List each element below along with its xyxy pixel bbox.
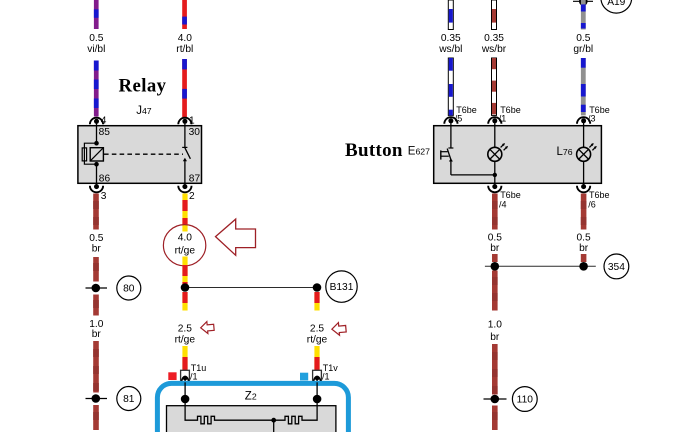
wire 0.5 br below T6be/6: [581, 194, 587, 230]
svg-text:br: br: [490, 243, 500, 254]
svg-text:ws/bl: ws/bl: [438, 44, 462, 55]
junction dot br left: [491, 262, 500, 271]
svg-text:B131: B131: [330, 282, 354, 293]
connector T6be/5 (cap+dot): [444, 117, 457, 126]
junction dot Z2 right: [313, 395, 322, 404]
connector pin 3 (cup+dot): [90, 183, 103, 192]
svg-text:rt/ge: rt/ge: [175, 335, 196, 346]
svg-text:85: 85: [99, 127, 111, 138]
svg-text:gr/bl: gr/bl: [573, 44, 593, 55]
svg-text:Button: Button: [345, 140, 403, 161]
svg-text:vi/bl: vi/bl: [87, 44, 105, 55]
node B131 circle: [326, 271, 357, 302]
node 80 circle: [117, 276, 141, 300]
heating element resistor path: [185, 406, 317, 424]
svg-text:30: 30: [189, 127, 201, 138]
svg-text:br: br: [92, 329, 102, 340]
button box E627: [434, 126, 602, 184]
svg-text:4.0: 4.0: [178, 33, 192, 44]
junction tick top gr/bl: [573, 0, 593, 2]
wire 2.5 rt/ge right lower: [314, 346, 319, 370]
wire 2.5 rt/ge right upper: [314, 292, 319, 311]
red marker square: [168, 372, 176, 380]
wire T1v to element: [316, 382, 318, 405]
big highlight arrow: [216, 219, 256, 255]
junction dot node 110: [491, 395, 500, 404]
connector pin 2 (cup+dot): [178, 183, 191, 192]
small arrow mid: [200, 321, 214, 334]
svg-text:rt/ge: rt/ge: [175, 246, 196, 257]
connector pin 1 (cap+dot): [178, 118, 191, 126]
svg-text:A19: A19: [607, 0, 625, 8]
wire 0.35 ws/br lower segment: [492, 58, 497, 115]
wire 0.5 br below T6be/4: [492, 194, 498, 230]
svg-text:/1: /1: [322, 372, 330, 382]
lamp 1 (illumination): [488, 126, 508, 184]
junction dot node 81: [92, 394, 101, 403]
svg-text:87: 87: [189, 173, 201, 184]
switch arrowhead: [183, 158, 187, 161]
svg-text:0.5: 0.5: [576, 33, 590, 44]
connector pin 4 (cap+dot): [90, 118, 103, 126]
node 110 circle: [512, 387, 537, 412]
small arrow right: [331, 322, 346, 336]
svg-text:Relay: Relay: [119, 76, 167, 97]
svg-text:br: br: [490, 332, 500, 343]
svg-text:0.35: 0.35: [441, 33, 461, 44]
wire 2.5 rt/ge mid lower: [182, 346, 187, 370]
wire 0.5 vi/bl top segment: [94, 0, 99, 29]
wire br segment below node 81: [93, 405, 99, 430]
svg-text:354: 354: [608, 262, 625, 273]
switch contact: wire pin30 down: [184, 126, 186, 148]
svg-text:2.5: 2.5: [310, 324, 324, 335]
wire 0.35 ws/bl lower segment: [448, 58, 453, 115]
blue marker square: [300, 373, 308, 381]
node 81 circle: [117, 387, 141, 411]
connector T6be/4 (cup+dot): [488, 183, 501, 192]
svg-text:br: br: [579, 243, 589, 254]
svg-text:/3: /3: [588, 114, 596, 124]
junction dot mid: [181, 283, 190, 292]
switch fixed tick: [182, 146, 187, 148]
svg-text:J47: J47: [136, 105, 152, 117]
switch arm: [185, 148, 191, 159]
junction dot node 80: [92, 284, 101, 293]
svg-text:86: 86: [99, 173, 111, 184]
svg-text:/1: /1: [190, 372, 198, 382]
wire rt/ge ellipse to node: [182, 257, 187, 285]
svg-text:0.35: 0.35: [484, 33, 504, 44]
svg-text:E627: E627: [408, 146, 430, 158]
relay coil square: [90, 148, 103, 161]
wire 0.35 ws/br top segment: [492, 0, 497, 30]
wire 0.5 br segment below pin3: [93, 194, 99, 230]
connector T6be/1 (cap+dot): [488, 117, 501, 125]
svg-text:/1: /1: [499, 114, 507, 124]
svg-text:T6be: T6be: [589, 190, 610, 200]
svg-text:1.0: 1.0: [488, 320, 502, 331]
Z2 heated window blue frame: [157, 383, 348, 432]
svg-text:/6: /6: [588, 200, 596, 210]
svg-text:80: 80: [123, 284, 135, 295]
lamp 2 L76: [577, 126, 597, 184]
wire T1u to element: [184, 382, 186, 405]
wire 4.0 rt/bl top segment: [182, 0, 187, 29]
wire switch to pin87: [184, 161, 186, 184]
svg-text:0.5: 0.5: [89, 233, 103, 244]
svg-text:110: 110: [517, 395, 534, 406]
wire 0.5 gr/bl lower segment: [581, 58, 586, 115]
wire 4.0 rt/bl lower segment: [182, 59, 187, 117]
svg-text:ws/br: ws/br: [481, 44, 507, 55]
svg-text:L76: L76: [557, 146, 573, 158]
wire 0.5 br stub to node: [492, 254, 498, 262]
wire br segment to node 81: [93, 341, 99, 393]
svg-text:rt/bl: rt/bl: [176, 44, 193, 55]
svg-text:/5: /5: [455, 114, 463, 124]
svg-text:Z2: Z2: [245, 390, 257, 402]
svg-text:/4: /4: [499, 200, 507, 210]
element center tap wire: [273, 420, 275, 432]
relay box J47: [78, 126, 202, 184]
svg-text:T6be: T6be: [500, 190, 521, 200]
svg-text:3: 3: [101, 191, 107, 202]
element center tap dot: [271, 418, 276, 423]
bus line to B131: [185, 287, 317, 289]
svg-text:br: br: [92, 244, 102, 255]
bus line to node 354: [485, 265, 596, 267]
dashed actuation line: [104, 153, 183, 155]
wire br below junction: [492, 271, 498, 311]
svg-text:81: 81: [123, 394, 135, 405]
wire br to node 110: [492, 344, 498, 395]
wire br segment below node 80: [93, 295, 99, 316]
node dot coil bottom: [94, 162, 99, 167]
svg-text:rt/ge: rt/ge: [307, 335, 328, 346]
push button switch: [441, 126, 497, 177]
coil feed U path: [84, 143, 96, 164]
junction dot top gr/bl: [579, 0, 588, 6]
svg-text:2.5: 2.5: [178, 324, 192, 335]
wire 0.5 vi/bl lower segment: [94, 61, 99, 117]
junction tick at node 80: [86, 287, 108, 289]
junction dot br right: [579, 262, 588, 271]
junction tick at node 110: [484, 398, 507, 400]
svg-text:0.5: 0.5: [577, 233, 591, 244]
junction dot right branch: [313, 283, 322, 292]
wire br below node 110: [492, 406, 498, 431]
connector T1v (boxed): [313, 370, 322, 382]
highlight ellipse: [163, 225, 205, 266]
wire coil to pin86: [96, 164, 98, 183]
node dot coil top: [94, 141, 99, 146]
svg-text:0.5: 0.5: [488, 233, 502, 244]
junction dot Z2 left: [181, 395, 190, 404]
svg-text:4.0: 4.0: [178, 233, 192, 244]
heating element box: [167, 406, 336, 432]
node 354 circle: [604, 254, 629, 279]
wire br segment to node 80: [93, 257, 99, 282]
connector T1u (boxed): [181, 370, 190, 382]
wire 0.35 ws/bl top segment: [448, 0, 453, 30]
connector T6be/3 (cap+dot): [577, 117, 590, 126]
node A19 circle: [601, 0, 632, 13]
wire pin85 to coil: [96, 126, 98, 144]
wire 0.5 br stub to node right: [581, 254, 587, 262]
relay coil frame rect: [82, 148, 86, 161]
junction tick at node 81: [86, 398, 108, 400]
wire 0.5 gr/bl top segment: [581, 0, 586, 30]
svg-text:2: 2: [189, 191, 195, 202]
svg-text:0.5: 0.5: [89, 33, 103, 44]
wire 4.0 rt/ge below pin2: [182, 194, 187, 232]
connector T6be/6 (cup+dot): [577, 183, 590, 192]
wire 2.5 rt/ge mid upper: [182, 292, 187, 311]
